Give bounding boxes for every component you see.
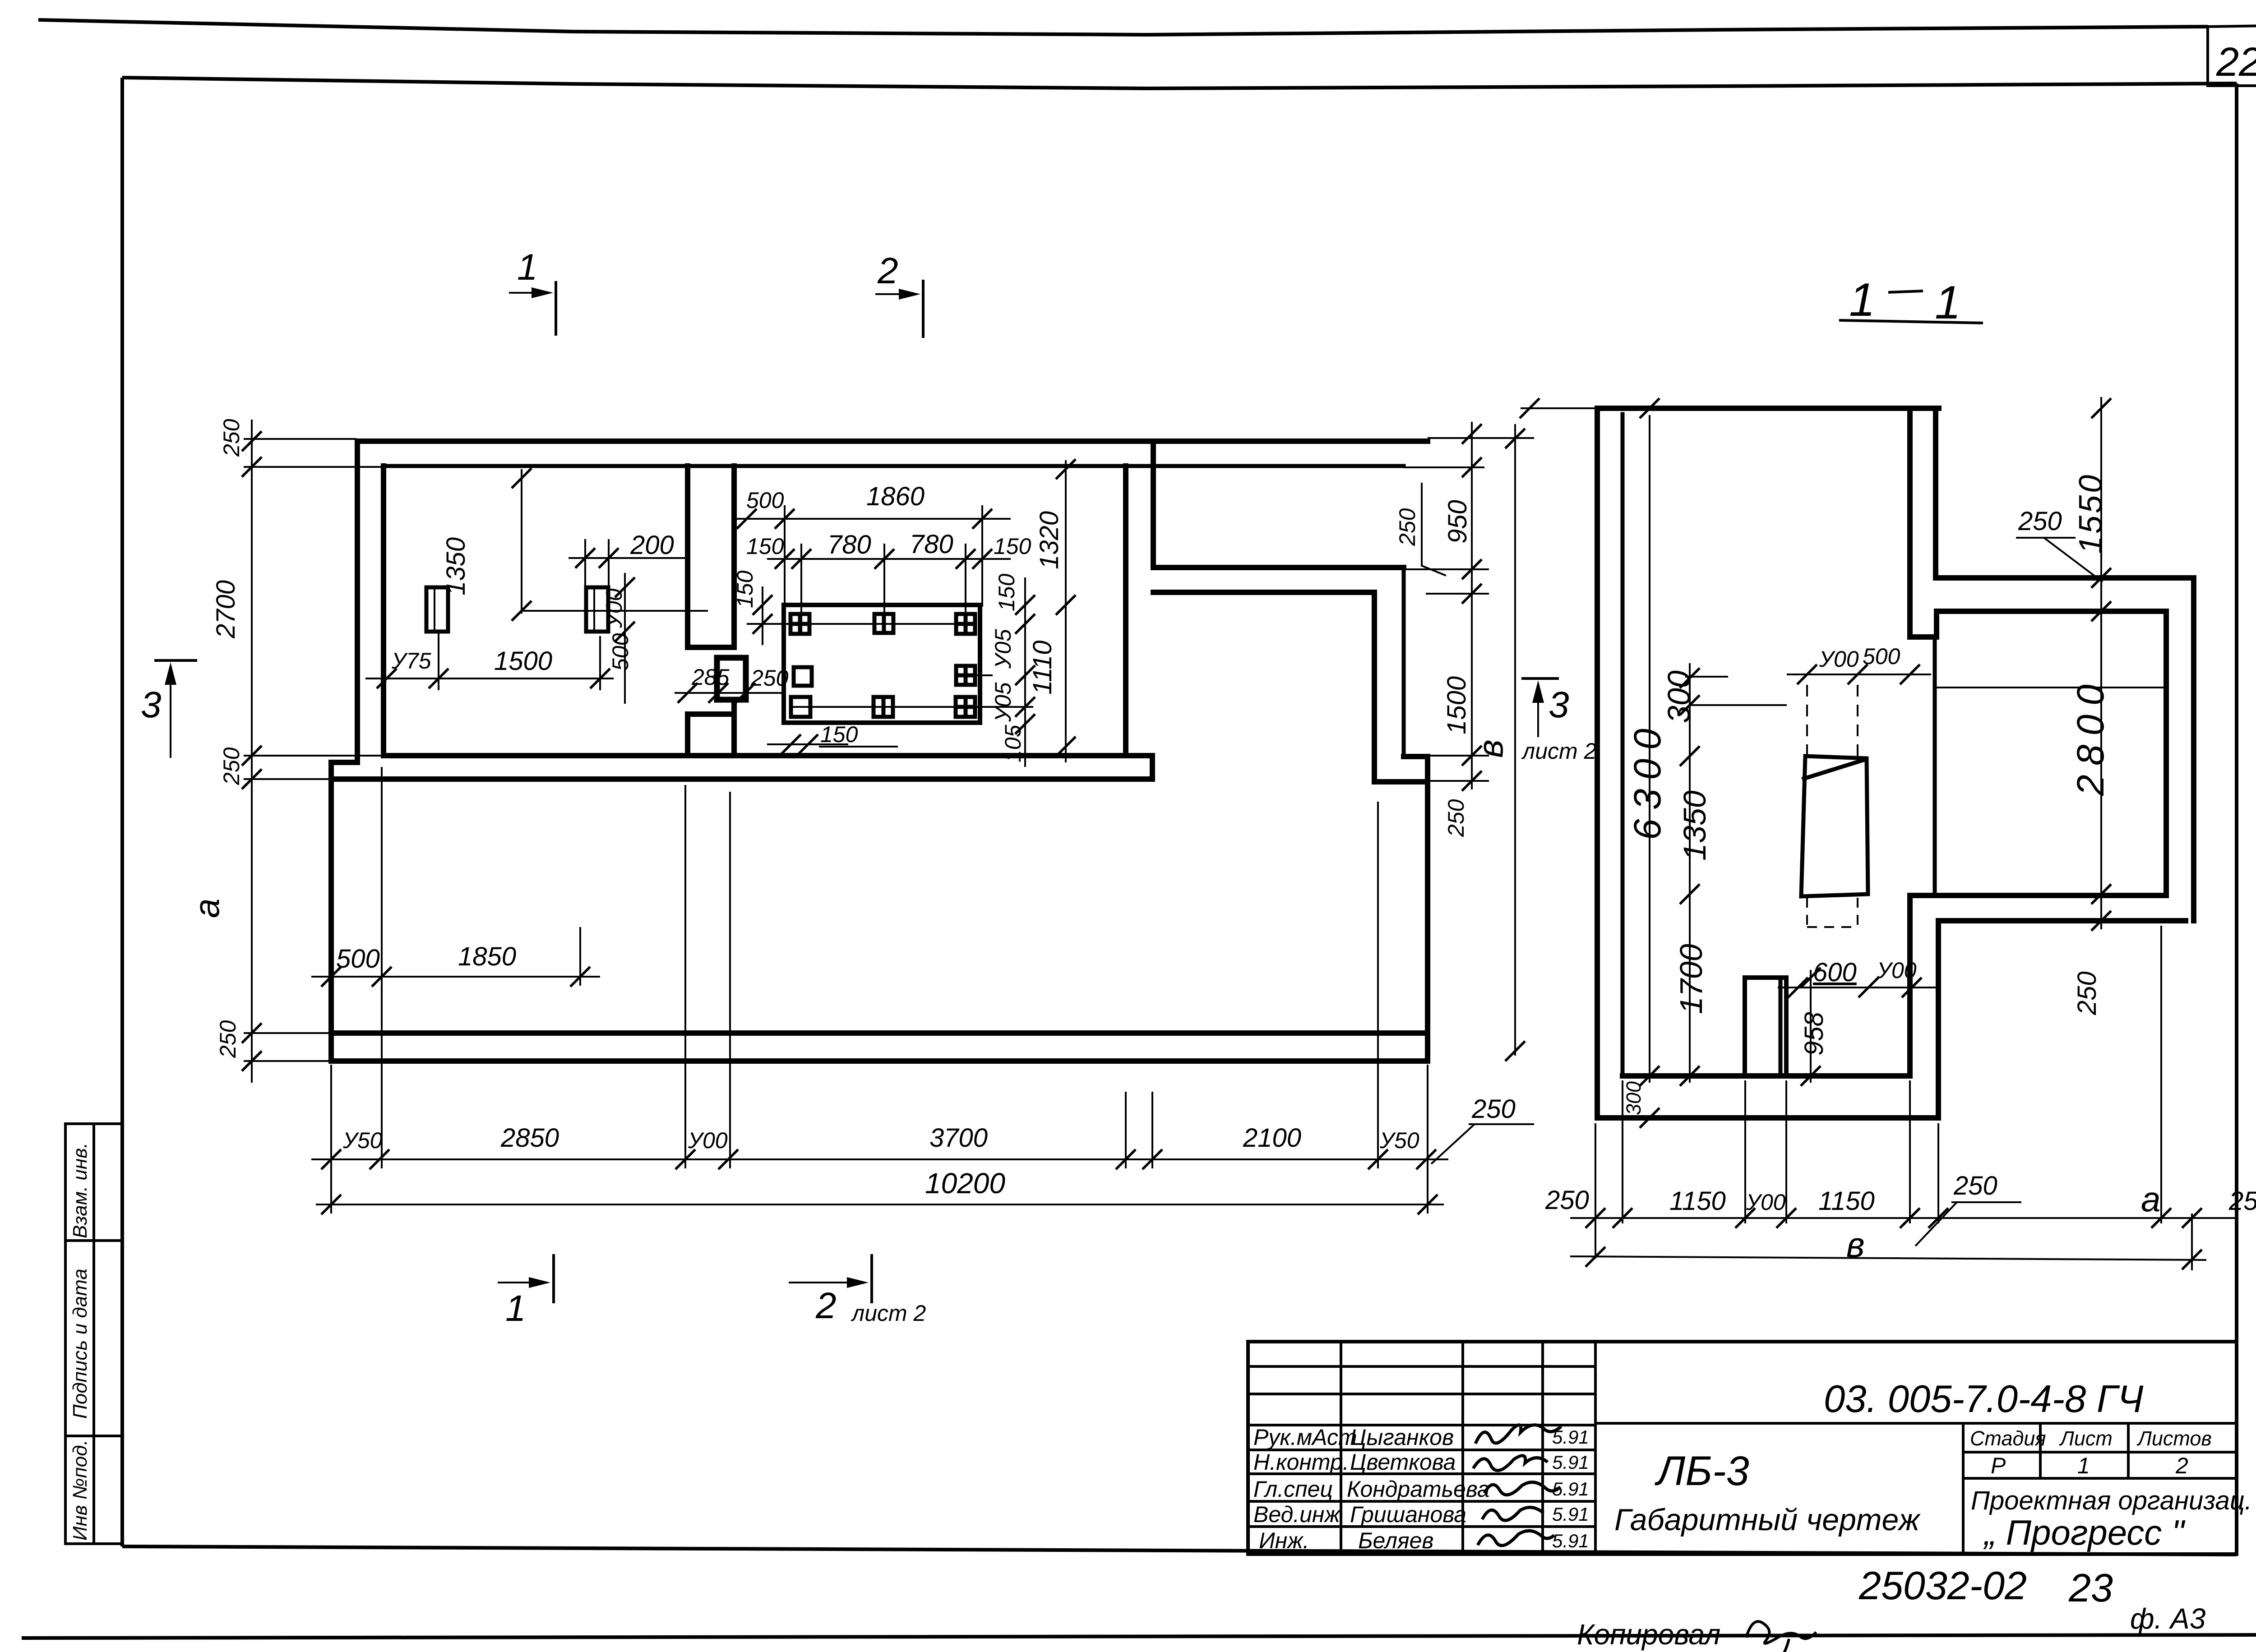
svg-text:ф. А3: ф. А3 <box>2130 1602 2206 1635</box>
svg-text:Лист: Лист <box>2059 1427 2113 1450</box>
equipment square r2c1 <box>794 667 812 686</box>
extension x1519 <box>684 785 686 1168</box>
svg-text:У75: У75 <box>391 648 431 674</box>
svg-text:У00: У00 <box>1746 1190 1786 1215</box>
section bottom dims 250 1150 У00 1150 <box>1545 1179 2256 1228</box>
svg-text:25032-02: 25032-02 <box>1858 1563 2027 1608</box>
svg-text:Рук.мАст: Рук.мАст <box>1253 1425 1357 1450</box>
svg-text:1320: 1320 <box>1035 511 1064 569</box>
svg-text:1500: 1500 <box>494 646 552 676</box>
section pit inner right wall <box>1907 895 1913 1076</box>
plan left step <box>331 762 357 1061</box>
svg-text:Гришанова: Гришанова <box>1350 1502 1466 1527</box>
svg-text:Р: Р <box>1991 1453 2006 1478</box>
svg-text:10200: 10200 <box>925 1167 1005 1200</box>
plan left outer wall <box>355 441 360 762</box>
svg-text:У05: У05 <box>990 629 1016 669</box>
title block divider under doc number <box>1595 1422 2237 1425</box>
svg-text:500: 500 <box>336 944 380 974</box>
section bottom extension lines <box>1595 926 2192 1270</box>
section door dashed top lines <box>1807 677 1858 756</box>
equipment block outline <box>784 605 980 723</box>
right dims 1320 1110 <box>1028 459 1076 762</box>
section room floor top face <box>1910 893 2164 898</box>
svg-text:250: 250 <box>1443 799 1469 837</box>
room1 right wall upper <box>685 466 690 647</box>
signature rows names <box>1347 1425 1490 1553</box>
extension x1618 <box>729 792 731 1168</box>
room2 left wall lower <box>731 701 737 756</box>
plan arm left connector wall <box>1151 441 1156 568</box>
svg-text:1850: 1850 <box>458 942 516 971</box>
svg-text:950: 950 <box>1443 500 1472 544</box>
plan lower area inner corner <box>1374 592 1426 782</box>
svg-text:958: 958 <box>1799 1012 1829 1056</box>
drawing frame right border <box>2235 83 2238 1555</box>
svg-text:150: 150 <box>820 722 858 747</box>
room2 left dim 150 <box>732 570 792 645</box>
svg-text:500: 500 <box>746 488 784 513</box>
svg-text:Инв №под.: Инв №под. <box>69 1440 91 1541</box>
section partition left face <box>1910 408 1935 637</box>
plan arm bottom wall inner <box>1153 590 1374 595</box>
extension x846 <box>381 767 383 1168</box>
svg-text:У50: У50 <box>1379 1128 1419 1153</box>
svg-text:Листов: Листов <box>2136 1427 2212 1450</box>
room1 posts axis line <box>523 610 708 612</box>
svg-text:5.91: 5.91 <box>1552 1478 1589 1500</box>
section room top wall <box>1937 609 2166 614</box>
section room left short stub <box>1934 611 1939 637</box>
page number box 22 <box>2208 26 2256 86</box>
signature squiggles <box>1473 1425 1561 1546</box>
section dim 958 pedestal <box>1799 968 1829 1086</box>
svg-text:ЛБ-3: ЛБ-3 <box>1655 1448 1749 1494</box>
svg-text:У00: У00 <box>601 588 627 628</box>
svg-text:1150: 1150 <box>1818 1186 1875 1216</box>
svg-text:250: 250 <box>2228 1186 2256 1216</box>
section left outer wall <box>1595 408 1600 1118</box>
plan right wall lower <box>1425 757 1430 1061</box>
svg-text:5.91: 5.91 <box>1552 1530 1589 1551</box>
svg-text:5.91: 5.91 <box>1552 1452 1589 1473</box>
room1 dim 200 <box>569 531 690 586</box>
cut mark 1 top <box>509 247 556 336</box>
svg-text:780: 780 <box>910 530 953 559</box>
left dim chain line <box>242 420 262 1083</box>
svg-text:У00: У00 <box>1877 958 1917 983</box>
svg-text:23: 23 <box>2068 1565 2113 1610</box>
dim line 500/1850 <box>311 942 600 987</box>
svg-text:285: 285 <box>691 664 730 690</box>
svg-text:250: 250 <box>1953 1171 1997 1200</box>
equipment bottom dim 150 <box>767 722 898 754</box>
plan rooms bottom line <box>384 753 1152 758</box>
plan band end cap <box>1150 756 1155 779</box>
door jamb top <box>688 645 734 650</box>
equipment square r3c1 <box>791 697 810 717</box>
signature dates <box>1552 1426 1589 1551</box>
svg-text:Гл.спец: Гл.спец <box>1253 1477 1333 1502</box>
section pedestal <box>1745 978 1786 1076</box>
section room right wall inner <box>2164 611 2169 895</box>
room2 dim 500/1860 <box>734 482 1011 529</box>
svg-text:250: 250 <box>219 419 244 457</box>
svg-text:500: 500 <box>1863 644 1900 669</box>
right column dims 150 405 405 105 <box>990 573 1035 767</box>
section overall line в <box>1570 1225 2206 1269</box>
title block horizontals left part <box>1248 1366 1595 1527</box>
svg-text:Проектная организац.: Проектная организац. <box>1971 1486 2252 1515</box>
signature rows labels <box>1253 1425 1357 1553</box>
cut mark 2 bottom <box>789 1254 926 1326</box>
plan lower bottom wall inner <box>331 1030 1428 1036</box>
svg-text:03. 005-7.0-4-8 ГЧ: 03. 005-7.0-4-8 ГЧ <box>1824 1378 2144 1421</box>
sheet bottom edge line <box>22 1635 2256 1638</box>
plan arm bottom wall outer <box>1153 565 1404 570</box>
extension x3164 bottom <box>1427 1065 1428 1214</box>
room1 post right <box>586 587 608 632</box>
room1 dim 1350 vertical <box>441 468 532 621</box>
svg-text:У00: У00 <box>688 1128 728 1153</box>
svg-text:1860: 1860 <box>866 482 925 511</box>
section partition right face <box>1933 408 1938 578</box>
section left chain 300 1350 1700 <box>1661 663 1787 1086</box>
equipment square r2c3 <box>956 666 975 685</box>
section door dashed bracket <box>1807 898 1858 927</box>
svg-text:150: 150 <box>746 534 784 559</box>
cut mark 1 bottom <box>498 1254 554 1329</box>
section pit bottom outer <box>1597 1115 1938 1121</box>
svg-text:Взам. инв.: Взам. инв. <box>69 1143 91 1238</box>
door block <box>717 658 746 700</box>
section door leaf <box>1801 756 1868 896</box>
svg-text:в: в <box>1846 1225 1865 1264</box>
section dim 300 vertical pit floor <box>1640 1108 1660 1128</box>
section top wall <box>1597 406 1939 411</box>
svg-text:Цветкова: Цветкова <box>1350 1449 1456 1475</box>
cut mark 3 right <box>1521 678 1597 764</box>
title block verticals <box>1341 1342 1595 1554</box>
cut mark 2 top <box>875 250 923 338</box>
bottom chain dim line <box>311 1123 1448 1169</box>
extension x2554 <box>1151 1092 1153 1168</box>
svg-text:250: 250 <box>2018 507 2062 536</box>
svg-text:„ Прогресс ": „ Прогресс " <box>1983 1513 2186 1552</box>
svg-text:22: 22 <box>2216 40 2256 85</box>
svg-text:2: 2 <box>2175 1453 2188 1478</box>
svg-text:У50: У50 <box>342 1128 383 1153</box>
svg-text:500: 500 <box>608 633 633 671</box>
svg-text:250: 250 <box>2072 971 2102 1015</box>
svg-text:а: а <box>2141 1179 2160 1219</box>
svg-text:Стадия: Стадия <box>1970 1427 2046 1450</box>
overall axis line v <box>1470 424 1525 1061</box>
equipment square r3c3 <box>956 697 975 717</box>
svg-text:1: 1 <box>517 247 538 288</box>
svg-text:1350: 1350 <box>1677 790 1712 861</box>
svg-text:150: 150 <box>994 534 1031 559</box>
plan top wall inner face <box>384 464 1404 468</box>
svg-text:105: 105 <box>1000 724 1026 762</box>
room2 right wall <box>1123 466 1128 756</box>
svg-text:а: а <box>187 899 227 918</box>
drawing frame top border <box>122 78 2237 88</box>
right side dim line x3262 <box>1462 422 1482 791</box>
section upper floor right part <box>1936 575 2194 581</box>
svg-text:2800: 2800 <box>2069 675 2112 796</box>
equipment square r1c2 <box>874 614 893 633</box>
section pit floor inner <box>1623 1073 1910 1079</box>
section pit outer step <box>1936 921 1941 1118</box>
room2 dim 150 780 780 150 <box>746 530 1031 569</box>
section room ledge line <box>1937 687 2166 688</box>
section label 250 leader bottom <box>1915 1171 2021 1246</box>
svg-text:780: 780 <box>828 530 871 559</box>
title block stage table <box>1963 1423 2237 1554</box>
svg-text:250: 250 <box>1471 1094 1516 1124</box>
svg-text:250: 250 <box>215 1020 240 1058</box>
room1 left wall <box>381 466 386 756</box>
title block outer <box>1248 1342 2237 1554</box>
plan lower bottom wall outer <box>331 1058 1428 1064</box>
svg-text:Н.контр.: Н.контр. <box>1253 1449 1349 1475</box>
svg-text:в: в <box>1470 739 1510 758</box>
svg-text:3: 3 <box>141 684 162 725</box>
left extension lines <box>244 439 383 1061</box>
svg-text:300: 300 <box>1661 670 1697 723</box>
equipment square r1c1 <box>791 614 809 634</box>
svg-text:лист 2: лист 2 <box>1521 738 1597 764</box>
plan band top line <box>331 776 1152 782</box>
svg-text:250: 250 <box>750 665 789 691</box>
cut mark 3 left <box>141 660 197 758</box>
svg-text:200: 200 <box>630 531 674 560</box>
extension x734 bottom <box>330 1065 332 1214</box>
svg-text:Подпись и дата: Подпись и дата <box>69 1269 91 1419</box>
section right outer wall <box>2191 578 2196 921</box>
svg-text:600: 600 <box>1813 958 1857 987</box>
left strip frame <box>65 1124 122 1544</box>
label 250 leader bottom right <box>1431 1094 1534 1164</box>
extension x2495 <box>1125 1092 1127 1168</box>
svg-text:3: 3 <box>1549 684 1569 725</box>
door dims 285 250 <box>675 664 789 703</box>
svg-text:250: 250 <box>219 747 244 785</box>
plan right opening edge <box>1402 568 1406 757</box>
label 250 right top with leader <box>1395 483 1446 576</box>
svg-text:Беляев: Беляев <box>1358 1528 1434 1553</box>
room1 post left <box>426 587 448 632</box>
svg-text:Копировал: Копировал <box>1577 1618 1720 1651</box>
svg-text:1: 1 <box>505 1288 526 1329</box>
svg-text:Вед.инж: Вед.инж <box>1253 1502 1341 1527</box>
equipment square r3c2 <box>874 697 893 717</box>
svg-text:1150: 1150 <box>1669 1186 1726 1216</box>
section dim У00 500 top of door <box>1787 644 1931 684</box>
svg-text:150: 150 <box>732 570 758 608</box>
svg-text:У00: У00 <box>1819 646 1859 672</box>
svg-text:2: 2 <box>815 1285 837 1326</box>
svg-text:1110: 1110 <box>1028 641 1057 695</box>
svg-text:1700: 1700 <box>1674 944 1709 1014</box>
equipment square r1c3 <box>956 614 975 634</box>
svg-text:Кондратьева: Кондратьева <box>1347 1477 1490 1502</box>
section title 1-1 <box>1839 274 1983 329</box>
equipment row axis lines <box>755 624 1033 707</box>
svg-text:1: 1 <box>1849 274 1875 326</box>
section right chain 1550 250 2800 250 <box>2069 397 2112 1015</box>
svg-text:1350: 1350 <box>441 537 471 595</box>
extension x1286 <box>579 927 581 986</box>
room1 dim 475/1500 <box>365 632 614 690</box>
svg-text:2700: 2700 <box>211 580 240 639</box>
svg-text:150: 150 <box>994 573 1019 611</box>
svg-text:300: 300 <box>1622 1081 1645 1115</box>
drawing frame bottom border <box>122 1546 2237 1555</box>
room2 extension verticals <box>785 505 982 634</box>
svg-text:2: 2 <box>877 250 898 291</box>
plan right wall step <box>1404 754 1428 759</box>
copier signature <box>1746 1621 1816 1652</box>
svg-text:Цыганков: Цыганков <box>1350 1425 1454 1450</box>
svg-text:Габаритный чертеж: Габаритный чертеж <box>1614 1503 1921 1537</box>
svg-text:1500: 1500 <box>1442 676 1471 734</box>
extension x3054 <box>1377 802 1379 1168</box>
svg-text:6300: 6300 <box>1626 720 1669 840</box>
section dim 600 У00 below door <box>1778 958 1936 997</box>
right side extension lines <box>1404 438 1534 781</box>
section room floor bottom face <box>1938 918 2186 923</box>
svg-text:5.91: 5.91 <box>1552 1426 1589 1448</box>
svg-text:Инж.: Инж. <box>1259 1528 1309 1553</box>
section top extension to plan <box>1520 398 1597 418</box>
svg-text:250: 250 <box>1545 1186 1589 1215</box>
overall dim line 10200 <box>316 1167 1444 1214</box>
section left wall inner face <box>1621 414 1625 1076</box>
room1 dim 400 post <box>601 573 635 704</box>
svg-text:250: 250 <box>1395 508 1420 546</box>
svg-text:3700: 3700 <box>929 1123 988 1153</box>
room2 left wall upper <box>731 466 737 647</box>
svg-text:У05: У05 <box>990 682 1016 722</box>
sheet top edge line <box>38 20 2208 35</box>
section partition lower edge <box>1933 637 1937 895</box>
drawing frame left border <box>120 78 124 1546</box>
plan outer top wall <box>357 438 1428 444</box>
door jamb bottom <box>688 711 734 717</box>
section label 250 leader top right <box>2016 507 2103 582</box>
section dim 6300 <box>1626 398 1669 1086</box>
svg-text:2100: 2100 <box>1243 1123 1301 1153</box>
svg-text:2850: 2850 <box>500 1123 559 1153</box>
svg-text:5.91: 5.91 <box>1552 1504 1589 1525</box>
svg-text:лист 2: лист 2 <box>851 1301 926 1326</box>
svg-text:1550: 1550 <box>2073 473 2109 554</box>
svg-text:1: 1 <box>2077 1453 2090 1478</box>
room1 right wall lower <box>685 714 690 756</box>
